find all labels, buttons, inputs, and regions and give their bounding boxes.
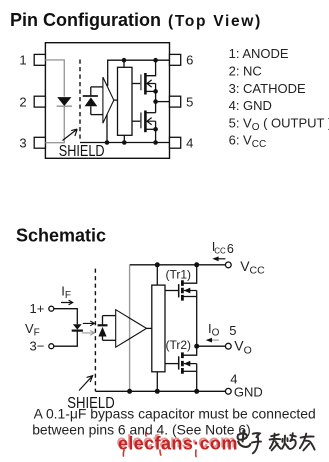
Tr1 drain wire bbox=[183, 265, 196, 283]
Q1 source-body vertical bbox=[155, 84, 157, 113]
wire block top to rail bbox=[123, 60, 125, 67]
junction dot block bottom bbox=[122, 140, 127, 145]
photodiode PD2 leads bbox=[102, 316, 104, 341]
Tr2 body arrowhead bbox=[184, 361, 191, 367]
wire photodiode loop bottom bbox=[91, 114, 103, 116]
wire block bottom to rail bbox=[123, 135, 125, 142]
svg-text:Pin Configuration: Pin Configuration bbox=[10, 10, 161, 30]
SHIELD arrow (pin config) bbox=[63, 129, 78, 140]
svg-text:(Tr1): (Tr1) bbox=[166, 268, 192, 282]
Q1 drain wire bbox=[145, 60, 155, 75]
shield dashed line (schematic) bbox=[94, 269, 96, 392]
wire VO bbox=[197, 345, 226, 347]
Tr2 gate wire bbox=[165, 363, 179, 365]
photodiode PD1 cathode bar bbox=[83, 95, 98, 97]
svg-text:elecfans·com: elecfans·com bbox=[118, 434, 238, 454]
svg-text:A 0.1-μF bypass capacitor must: A 0.1-μF bypass capacitor must be connec… bbox=[34, 405, 316, 421]
Q2 source wire bbox=[145, 128, 155, 130]
Q1 source wire bbox=[145, 90, 155, 92]
pin list bbox=[229, 46, 329, 150]
Tr1 gate wire bbox=[165, 290, 179, 292]
svg-text:VCC: VCC bbox=[240, 258, 265, 277]
terminal circle GND bbox=[225, 388, 231, 394]
Tr1 channel segments bbox=[181, 280, 184, 300]
junction dot gnd rail left bbox=[105, 140, 110, 145]
svg-text:(Top View): (Top View) bbox=[168, 13, 262, 30]
pin 2 stub bbox=[34, 96, 45, 107]
junction dot Q2 source bbox=[153, 127, 158, 132]
Tr2 body arrow bbox=[184, 363, 197, 365]
arrow IF bbox=[61, 300, 73, 305]
Q2 channel bar bbox=[144, 111, 147, 133]
svg-text:3: CATHODE: 3: CATHODE bbox=[229, 81, 306, 96]
Tr1 body arrowhead bbox=[184, 288, 191, 294]
svg-text:1: 1 bbox=[19, 53, 26, 68]
LED D1 triangle bbox=[57, 97, 71, 106]
junction dot rail/block bbox=[155, 262, 160, 267]
junction dot block top bbox=[122, 58, 127, 63]
arrow IO shaft (gray) bbox=[211, 339, 219, 341]
top rail (pin config VCC rail) bbox=[108, 60, 170, 86]
Q1 gate wire bbox=[132, 83, 141, 85]
svg-text:6: 6 bbox=[186, 53, 193, 68]
watermark drips bbox=[123, 432, 196, 457]
photodiode PD2 cathode bar bbox=[98, 324, 108, 326]
svg-text:6: VCC: 6: VCC bbox=[229, 133, 267, 151]
transistor Tr2 bbox=[165, 346, 197, 391]
Tr2 gate bar bbox=[178, 356, 180, 369]
watermark chinese char zi bbox=[252, 433, 261, 453]
Tr2 drain wire bbox=[183, 346, 196, 355]
svg-text:3−: 3− bbox=[30, 338, 45, 353]
op-amp A1 (pin config) bbox=[103, 77, 114, 123]
svg-text:CC: CC bbox=[214, 246, 226, 255]
wire photodiode to amp bottom bbox=[103, 339, 116, 341]
op-amp A2 white fill bbox=[116, 310, 147, 348]
light arrow lower (gray) bbox=[82, 331, 95, 336]
Q1 channel bar bbox=[144, 73, 147, 95]
top rail (schematic VCC) bbox=[130, 264, 226, 266]
terminal circle VO bbox=[225, 343, 231, 349]
wire gray cathode from LED to pin3 bbox=[45, 106, 64, 142]
pin 1 stub bbox=[34, 54, 45, 65]
pin 3 stub bbox=[34, 137, 45, 148]
Q1 body arrow bbox=[147, 80, 156, 87]
pin 6 stub bbox=[170, 54, 181, 65]
svg-text:5: 5 bbox=[229, 323, 236, 338]
SHIELD arrow (schematic) bbox=[79, 376, 93, 391]
svg-text:1: ANODE: 1: ANODE bbox=[229, 46, 289, 61]
watermark chinese char dian bbox=[238, 431, 251, 447]
Tr1 source wire bbox=[183, 296, 196, 298]
svg-text:GND: GND bbox=[234, 384, 263, 399]
wire amp tip to block bbox=[147, 327, 152, 329]
Tr2 source wire bbox=[183, 370, 196, 372]
svg-text:Schematic: Schematic bbox=[16, 225, 106, 245]
watermark chinese char shao bbox=[282, 433, 296, 449]
photodiode PD1 leads bbox=[90, 87, 92, 115]
Tr2 channel segments bbox=[181, 352, 184, 373]
watermark chinese char fa bbox=[270, 434, 281, 451]
Q2 source-body vertical to gnd bbox=[155, 121, 157, 142]
LED D2 cathode bar bbox=[72, 330, 83, 332]
LED D2 triangle bbox=[73, 324, 82, 329]
svg-text:(Tr2): (Tr2) bbox=[166, 338, 192, 352]
wire to pin 5 bbox=[156, 101, 170, 103]
junction dot gnd rail Q2 bbox=[153, 140, 158, 145]
svg-text:6: 6 bbox=[227, 242, 234, 256]
wire block top to rail bbox=[156, 265, 158, 285]
svg-text:3: 3 bbox=[19, 135, 26, 150]
Q2 gate wire bbox=[132, 120, 141, 122]
arrow ICC head bbox=[212, 256, 218, 261]
driver block U1 bbox=[118, 67, 133, 135]
shield dashed line (pin config) bbox=[79, 60, 81, 141]
Q2 body arrow bbox=[147, 118, 156, 125]
transistor Q1 (upper mosfet, pin config) bbox=[132, 58, 158, 113]
junction dot gnd/Tr2 bbox=[194, 389, 199, 394]
gray bias line through amp bbox=[129, 265, 131, 391]
LED D1 cathode bar (gray) bbox=[57, 105, 72, 107]
junction dot VO node bbox=[194, 344, 199, 349]
junction dot gnd/gray line bbox=[127, 389, 132, 394]
wire photodiode to amp top bbox=[103, 315, 116, 317]
transistor Tr1 bbox=[165, 265, 197, 346]
svg-text:1+: 1+ bbox=[30, 301, 45, 316]
junction dot rail/Tr1 bbox=[194, 262, 199, 267]
wire cathode input bbox=[54, 331, 77, 347]
svg-text:SHIELD: SHIELD bbox=[59, 143, 105, 160]
Tr1 rail down to VO node bbox=[196, 297, 198, 347]
Tr1 body arrow bbox=[184, 290, 197, 292]
Tr2 source-body vertical and rail to gnd bbox=[196, 364, 198, 392]
svg-text:2: 2 bbox=[19, 94, 26, 109]
junction dot gnd/block bbox=[155, 389, 160, 394]
Tr1 source-body vertical bbox=[196, 291, 198, 297]
svg-text:IF: IF bbox=[61, 284, 71, 302]
Q2 gate bar bbox=[140, 113, 142, 129]
photodiode PD2 triangle bbox=[98, 327, 106, 337]
svg-text:VO: VO bbox=[234, 338, 252, 357]
transistor Q2 (lower mosfet, pin config) bbox=[132, 111, 158, 145]
svg-text:4: GND: 4: GND bbox=[229, 98, 272, 113]
wire anode input bbox=[54, 309, 77, 325]
op-amp A2 outline bbox=[116, 310, 147, 348]
bottom rail (pin config GND rail) bbox=[80, 142, 170, 144]
junction dot vcc rail / Q1 bbox=[153, 58, 158, 63]
Q2 drain wire bbox=[145, 112, 155, 114]
svg-text:4: 4 bbox=[186, 135, 193, 150]
svg-text:VF: VF bbox=[25, 321, 40, 339]
terminal circle 3 bbox=[49, 344, 54, 349]
wire amp bottom to gnd rail bbox=[106, 114, 108, 142]
junction dot Q1 source bbox=[153, 89, 158, 94]
arrow IO head bbox=[206, 338, 212, 343]
Tr1 gate bar bbox=[178, 284, 180, 297]
watermark chinese char you bbox=[300, 434, 315, 451]
svg-text:5: VO ( OUTPUT ): 5: VO ( OUTPUT ) bbox=[229, 115, 329, 132]
driver block U2 bbox=[152, 285, 165, 372]
svg-text:2: NC: 2: NC bbox=[229, 64, 262, 79]
Q1 gate bar bbox=[140, 74, 142, 90]
arrow ICC bbox=[214, 258, 225, 260]
pin 4 stub bbox=[170, 137, 181, 148]
terminal circle 1 bbox=[49, 306, 54, 311]
terminal circle VCC bbox=[225, 262, 231, 268]
photodiode PD1 triangle bbox=[85, 97, 98, 106]
wire block bottom to rail bbox=[156, 372, 158, 392]
junction dot pin5 node bbox=[153, 99, 158, 104]
light arrow upper (black) bbox=[83, 321, 95, 326]
package outline bbox=[45, 43, 169, 159]
svg-text:IO: IO bbox=[208, 321, 220, 339]
svg-text:5: 5 bbox=[186, 94, 193, 109]
bottom rail (schematic GND) bbox=[95, 390, 225, 392]
pin 5 stub bbox=[170, 96, 181, 107]
wire photodiode loop top bbox=[91, 86, 103, 88]
wire amp tip to block bbox=[114, 99, 118, 101]
wire gray anode from pin1 to LED bbox=[45, 60, 64, 97]
